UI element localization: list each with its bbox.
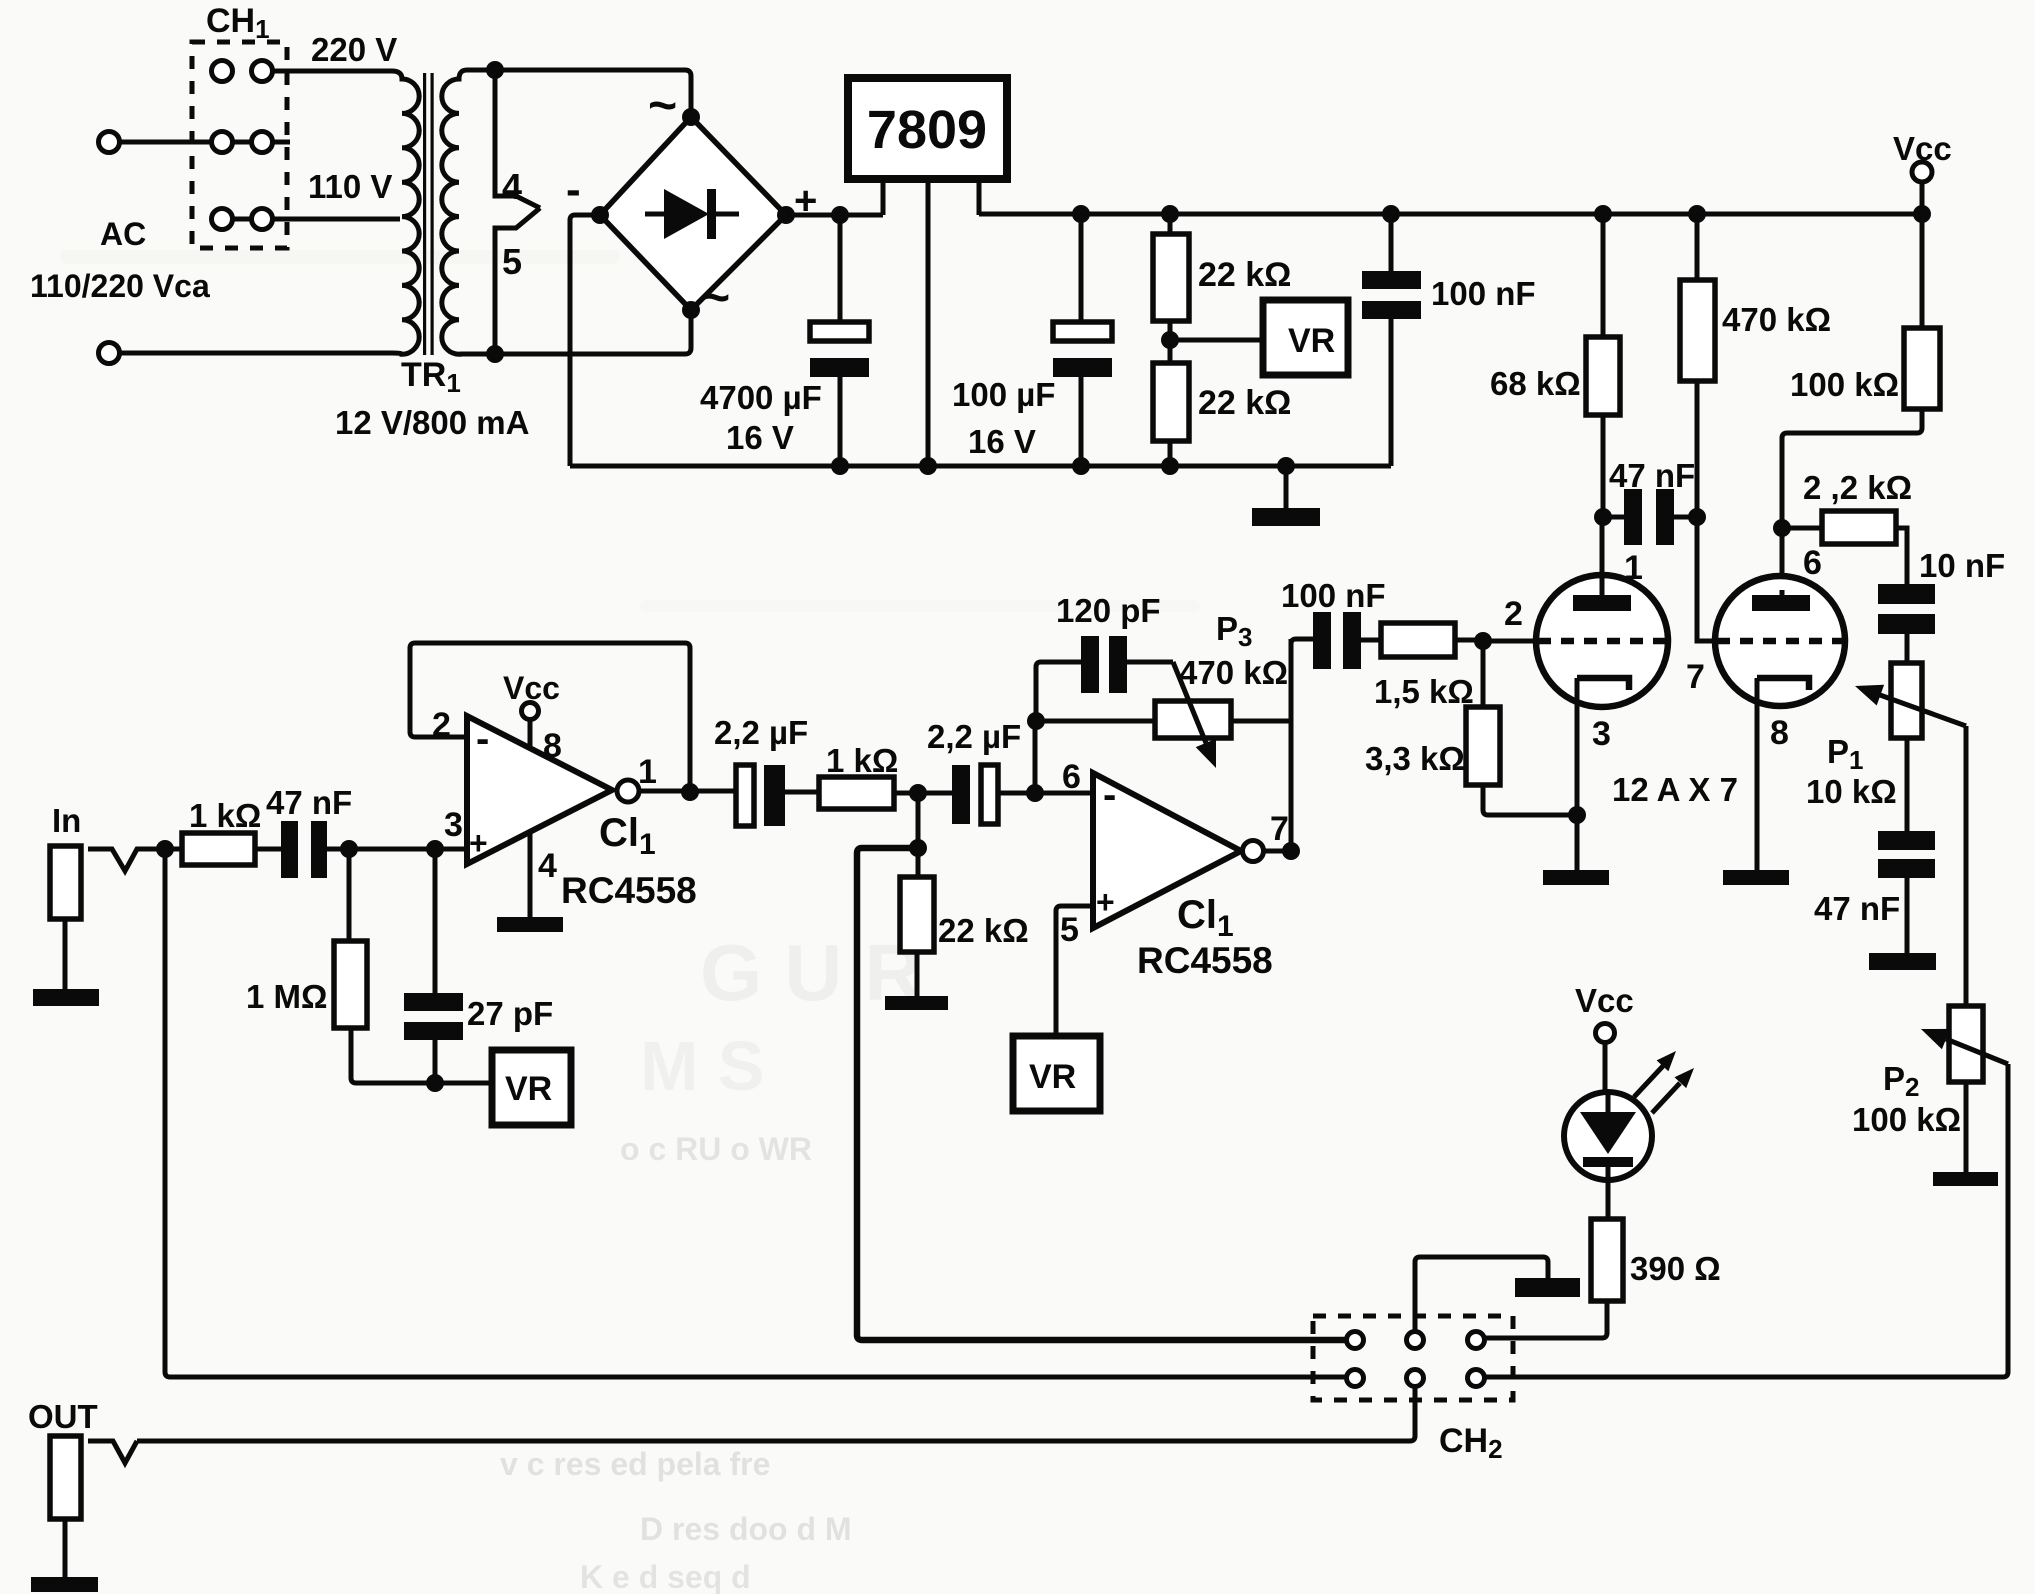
svg-text:-: -: [566, 165, 581, 214]
capacitor 2.2uF second plate1: [952, 765, 970, 824]
wire 7809 input pin: [881, 179, 886, 215]
AC line terminal upper: [99, 132, 120, 153]
switch CH2 contact top-middle: [1407, 1332, 1424, 1349]
svg-text:47 nF: 47 nF: [1609, 457, 1695, 494]
op-amp CI1b triangle: [1093, 773, 1241, 928]
bridge diode cathode lead: [716, 212, 739, 217]
wire input jack tip with break: [88, 849, 182, 871]
switch CH1 contact 220V left: [212, 61, 233, 82]
svg-text:-: -: [1103, 773, 1116, 817]
svg-text:16 V: 16 V: [726, 419, 794, 456]
switch CH2 contact bottom-middle: [1407, 1370, 1424, 1387]
resistor 68k: [1601, 214, 1606, 337]
wire 7809 ground pin: [926, 179, 931, 466]
svg-text:10 kΩ: 10 kΩ: [1806, 773, 1897, 810]
svg-text:VR: VR: [1288, 322, 1335, 360]
svg-text:VR: VR: [505, 1070, 552, 1108]
capacitor 10nF plate1: [1878, 584, 1935, 604]
wire Vcc to LED: [1603, 1043, 1608, 1093]
svg-text:2: 2: [1504, 595, 1523, 633]
terminal Vcc opamp1: [522, 703, 539, 720]
ground input jack: [33, 989, 99, 1006]
svg-text:1 kΩ: 1 kΩ: [189, 797, 261, 834]
switch CH1 contact 220V right: [252, 61, 273, 82]
svg-text:4700 µF: 4700 µF: [700, 379, 822, 416]
svg-text:100 nF: 100 nF: [1431, 275, 1536, 312]
svg-text:K e d seq d: K e d seq d: [580, 1559, 751, 1594]
svg-text:12 V/800 mA: 12 V/800 mA: [335, 404, 529, 441]
ground 47nF right: [1869, 953, 1936, 970]
node opamp2 output: [1282, 842, 1300, 860]
svg-text:10 nF: 10 nF: [1919, 547, 2005, 584]
svg-text:~: ~: [701, 269, 730, 325]
resistor 22k lower: [1153, 363, 1189, 441]
wire P3 left lead: [1036, 719, 1155, 724]
svg-text:12 A X 7: 12 A X 7: [1612, 771, 1738, 808]
potentiometer P1 body: [1891, 663, 1922, 738]
svg-text:3,3 kΩ: 3,3 kΩ: [1365, 740, 1465, 777]
svg-text:110 V: 110 V: [308, 168, 392, 205]
wire feedback vertical opamp2: [1289, 639, 1294, 851]
node 22k bias junction: [909, 784, 927, 802]
svg-text:16 V: 16 V: [968, 423, 1036, 460]
node 68k/47nF junction (tube1 plate): [1594, 508, 1612, 526]
wire V1a cathode lead pin3: [1575, 678, 1580, 870]
wire In node down to CH2 bottom-left: [165, 849, 1347, 1377]
wire Vcc to rail: [1920, 182, 1925, 214]
svg-text:390 Ω: 390 Ω: [1630, 1250, 1721, 1287]
wire 27pF top lead: [433, 849, 438, 993]
svg-text:2 ,2 kΩ: 2 ,2 kΩ: [1803, 469, 1912, 506]
switch CH1 dashed box: [192, 42, 287, 248]
node cathode/3.3k: [1568, 806, 1586, 824]
switch CH2 contact bottom-right: [1468, 1370, 1485, 1387]
wire P2 bottom to ground: [1964, 1082, 1969, 1172]
resistor 390R: [1591, 1219, 1623, 1301]
svg-text:22 kΩ: 22 kΩ: [938, 912, 1029, 949]
wire 100nF coupling left lead: [1291, 639, 1313, 644]
capacitor 100uF plate bottom: [1053, 358, 1112, 377]
wire CH2 bottom-middle to OUT line: [137, 1387, 1415, 1441]
wire positive rail left segment (bridge+ to 7809 input): [786, 213, 883, 218]
bridge diode triangle: [664, 189, 709, 239]
bridge diode anode lead: [645, 212, 665, 217]
svg-text:470 kΩ: 470 kΩ: [1179, 654, 1288, 691]
svg-text:22 kΩ: 22 kΩ: [1198, 384, 1291, 422]
triode V1a cathode: [1577, 678, 1629, 690]
svg-text:1: 1: [1624, 549, 1643, 587]
wire 390R to CH2 top-right: [1485, 1301, 1607, 1338]
svg-text:M S: M S: [640, 1027, 764, 1105]
capacitor 120pF plate1: [1081, 636, 1099, 693]
svg-text:1 MΩ: 1 MΩ: [246, 978, 327, 1015]
node opamp2 minus input: [1026, 784, 1044, 802]
svg-text:RC4558: RC4558: [561, 870, 697, 911]
wire 2.2uF second to opamp2 minus: [998, 791, 1093, 796]
wire opamp2 output: [1264, 849, 1291, 854]
node 22k divider top: [1161, 205, 1179, 223]
svg-text:7809: 7809: [867, 100, 987, 160]
ground V1a cathode: [1543, 870, 1609, 885]
node ground symbol stub: [1277, 457, 1295, 475]
node 100uF top: [1072, 205, 1090, 223]
svg-text:v c res ed pela fre: v c res ed pela fre: [500, 1446, 770, 1482]
triode V1b envelope: [1715, 576, 1845, 706]
op-amp CI1a output circle pin1: [617, 780, 639, 802]
wire 1k to 2.2uF second: [894, 791, 952, 796]
capacitor 47nF coupling plate1: [1624, 489, 1642, 545]
node secondary top: [486, 61, 504, 79]
terminal Vcc LED: [1596, 1024, 1615, 1043]
capacitor 4700uF plate bottom: [810, 358, 869, 377]
node VR bottom junction: [426, 1074, 444, 1092]
wire 4700uF top lead: [838, 215, 843, 322]
svg-text:OUT: OUT: [28, 1398, 98, 1435]
svg-text:100 µF: 100 µF: [952, 376, 1055, 413]
wire CH2 top-middle to pole bar: [1415, 1257, 1548, 1331]
switch CH2 contact top-right: [1468, 1332, 1485, 1349]
svg-text:Vcc: Vcc: [1575, 982, 1634, 1019]
AC line terminal lower: [99, 343, 120, 364]
resistor 22k bias: [900, 877, 934, 952]
switch CH1 pole contact right: [252, 132, 273, 153]
bridge rectifier diamond: [600, 117, 786, 310]
wire pin4 stub to ground: [528, 831, 533, 917]
node bridge right: [777, 206, 795, 224]
capacitor 4700uF plate top: [810, 322, 869, 341]
wire 47nF to opamp +: [327, 847, 467, 852]
wire 100k bottom to tube2 plate node: [1782, 409, 1922, 595]
wire secondary bottom to bridge: [495, 315, 691, 354]
svg-text:110/220 Vca: 110/220 Vca: [30, 268, 210, 304]
node rail right end: [1913, 205, 1931, 223]
ground P2: [1933, 1172, 1998, 1186]
svg-text:8: 8: [1770, 714, 1789, 752]
switch CH2 pole bar: [1515, 1278, 1580, 1297]
svg-text:100 kΩ: 100 kΩ: [1852, 1101, 1961, 1138]
node 470k top: [1688, 205, 1706, 223]
resistor 100k: [1920, 214, 1925, 328]
wire output jack tip with break: [88, 1441, 137, 1463]
wire LED anode inside: [1606, 1093, 1611, 1112]
wire V1a plate lead pin1: [1600, 517, 1605, 595]
svg-text:+: +: [1096, 884, 1115, 920]
potentiometer P2 wiper arrow: [1946, 1039, 2008, 1064]
wire 1.5k to tube grid: [1455, 638, 1483, 643]
svg-text:~: ~: [648, 77, 677, 133]
svg-text:6: 6: [1062, 758, 1081, 796]
op-amp CI1b output circle pin7: [1243, 841, 1264, 862]
wire opamp1 output: [639, 789, 736, 794]
svg-text:47 nF: 47 nF: [1814, 890, 1900, 927]
wire 100nF bottom lead: [1389, 319, 1394, 466]
node 100nF rail: [1382, 205, 1400, 223]
svg-text:22 kΩ: 22 kΩ: [1198, 256, 1291, 294]
output jack body: [50, 1436, 81, 1519]
resistor 3.3k: [1481, 641, 1486, 707]
node bridge top: [682, 108, 700, 126]
wire 22k to ground: [915, 952, 920, 996]
node 68k top: [1594, 205, 1612, 223]
svg-text:3: 3: [444, 806, 463, 844]
resistor 1M: [347, 849, 352, 941]
switch CH1 pole contact left: [212, 132, 233, 153]
wire branch to CH2 top-left: [857, 848, 1347, 1340]
svg-text:In: In: [52, 802, 81, 839]
node bridge left: [591, 206, 609, 224]
switch CH2 dashed box: [1313, 1316, 1513, 1400]
regulator U1 7809 box: [848, 78, 1007, 179]
wire V1b cathode lead pin8: [1755, 678, 1760, 870]
capacitor 2.2uF first plate2: [764, 765, 785, 826]
wire secondary center-tap upper + chevron: [495, 70, 540, 208]
wire 100uF bottom lead: [1079, 377, 1084, 466]
output jack sleeve ground stub: [63, 1519, 68, 1577]
resistor 470k: [1695, 214, 1700, 280]
svg-text:D res doo d M: D res doo d M: [640, 1511, 852, 1547]
node 1M: [340, 840, 358, 858]
svg-text:4: 4: [538, 847, 557, 885]
node 27pF: [426, 840, 444, 858]
node ground 22k divider: [1161, 457, 1179, 475]
triode V1b cathode: [1757, 678, 1809, 690]
switch CH2 contact top-left: [1347, 1332, 1364, 1349]
wire ground rail: [570, 464, 1391, 469]
node at VR input: [1269, 331, 1287, 349]
triode V1a envelope: [1536, 575, 1668, 707]
box VR reference stage2: [1013, 1036, 1100, 1111]
capacitor 120pF plate2: [1109, 636, 1127, 693]
wire V1b grid lead pin7: [1697, 517, 1716, 641]
node P3 left: [1027, 712, 1045, 730]
capacitor 2.2uF second plate2: [981, 765, 998, 824]
wire 4700uF bottom lead: [838, 377, 843, 466]
resistor 1k interstage: [819, 777, 894, 809]
svg-text:68 kΩ: 68 kΩ: [1490, 365, 1581, 402]
triode V1a plate: [1573, 595, 1631, 611]
wire V1b plate lead pin6 (already runs from node above): [1780, 590, 1785, 595]
svg-text:+: +: [469, 825, 488, 861]
triode V1b plate: [1752, 595, 1810, 611]
wire between 110V contacts: [233, 217, 251, 222]
triode V1a grid (dashed): [1538, 638, 1666, 645]
wire feedback node vertical: [1033, 721, 1038, 793]
svg-text:VR: VR: [1029, 1058, 1076, 1096]
wire P1 wiper to P2 top: [1964, 726, 1969, 1006]
node output/feedback junction: [681, 783, 699, 801]
wire LED cathode to 390R: [1606, 1167, 1611, 1219]
wire between pole contacts: [233, 140, 251, 145]
LED D1 triangle: [1580, 1112, 1636, 1154]
node grid/3.3k: [1474, 632, 1492, 650]
resistor 1.5k: [1381, 623, 1455, 657]
node 470k/47nF junction: [1688, 508, 1706, 526]
transformer TR1 core: [423, 73, 426, 355]
svg-text:47 nF: 47 nF: [266, 784, 352, 821]
wire 47nF left lead: [1603, 515, 1624, 520]
capacitor 100nF coupling plate2: [1343, 612, 1361, 669]
capacitor 100nF rail plate2: [1362, 301, 1421, 319]
wire 27pF bottom lead: [433, 1040, 438, 1083]
svg-text:2,2 µF: 2,2 µF: [927, 718, 1021, 755]
svg-text:5: 5: [1060, 911, 1079, 949]
svg-text:1,5 kΩ: 1,5 kΩ: [1374, 673, 1474, 710]
potentiometer P3 body: [1155, 701, 1231, 738]
svg-text:1: 1: [638, 753, 657, 791]
svg-text:5: 5: [502, 241, 522, 282]
node 4700uF top: [831, 206, 849, 224]
wire 100nF top lead: [1389, 214, 1394, 271]
wire 2.2uF to 1k: [785, 790, 819, 795]
svg-text:100 nF: 100 nF: [1281, 577, 1386, 614]
potentiometer P1 wiper arrow: [1880, 695, 1966, 726]
wire P1 bottom to 47nF: [1905, 738, 1910, 831]
capacitor 47nF right plate1: [1878, 831, 1935, 850]
capacitor 2.2uF first plate1: [736, 765, 754, 826]
wire feedback loop opamp1 (pin2 to output): [410, 643, 690, 792]
box VR reference top: [1263, 300, 1348, 375]
wire 10nF to P1: [1905, 634, 1910, 663]
wire secondary top to bridge: [495, 70, 691, 112]
LED D1 cathode bar: [1583, 1157, 1633, 1167]
wire 47nF right lead: [1674, 515, 1697, 520]
ground output jack: [31, 1577, 98, 1592]
svg-text:-: -: [476, 717, 489, 761]
wire P2 wiper down to CH2: [1485, 1064, 2008, 1377]
ground V1b cathode: [1723, 870, 1789, 885]
capacitor 47nF input plate2: [311, 821, 327, 878]
switch CH2 contact bottom-left: [1347, 1370, 1364, 1387]
wire P3 right lead: [1231, 719, 1291, 724]
wire 1k to 47nF: [255, 847, 281, 852]
node CH2 send branch: [909, 839, 927, 857]
switch CH1 contact 110V right: [252, 209, 273, 230]
ground symbol main rail: [1284, 466, 1289, 510]
wire pin8 stub: [528, 720, 533, 748]
switch CH1 contact 110V left: [212, 209, 233, 230]
wire pin5 to VR: [1056, 906, 1093, 1036]
node ground 4700uF: [831, 457, 849, 475]
node 22k divider mid: [1161, 331, 1179, 349]
node ground 7809: [919, 457, 937, 475]
capacitor 27pF plate2: [404, 1022, 463, 1040]
wire secondary center-tap lower + chevron: [495, 208, 540, 354]
resistor 22k upper: [1168, 214, 1173, 234]
capacitor 47nF input plate1: [281, 821, 298, 878]
svg-text:27 pF: 27 pF: [467, 995, 553, 1032]
svg-text:7: 7: [1270, 810, 1289, 848]
node ground 100uF: [1072, 457, 1090, 475]
svg-text:AC: AC: [100, 216, 146, 252]
node secondary bottom: [486, 345, 504, 363]
wire 110V tap: [273, 217, 400, 222]
triode V1b grid (dashed): [1717, 638, 1843, 645]
wire divider mid to VR: [1170, 338, 1278, 343]
box VR reference stage1: [492, 1050, 571, 1125]
node bridge bottom: [682, 301, 700, 319]
transformer TR1 secondary winding: [442, 70, 488, 354]
ground opamp1: [497, 917, 563, 932]
wire 120pF right lead: [1127, 660, 1173, 665]
potentiometer P3 wiper arrow: [1173, 662, 1206, 743]
capacitor 100uF plate top: [1053, 322, 1112, 341]
resistor 2.2k: [1782, 526, 1822, 531]
terminal Vcc top right: [1912, 162, 1932, 182]
wire AC upper to CH1 pole: [120, 140, 211, 145]
transformer TR1 primary winding (220V wire + winding): [120, 71, 419, 354]
node tube2 plate / 2.2k: [1773, 519, 1791, 537]
wire 120pF left lead: [1036, 662, 1081, 721]
svg-text:6: 6: [1803, 544, 1822, 582]
svg-text:RC4558: RC4558: [1137, 940, 1273, 981]
wire 100uF top lead: [1079, 214, 1084, 322]
node input: [156, 840, 174, 858]
svg-text:o c RU o WR: o c RU o WR: [620, 1131, 812, 1167]
wire down to 22k and CH2 branch: [916, 793, 921, 952]
svg-text:4: 4: [502, 166, 522, 207]
svg-text:Vcc: Vcc: [503, 670, 560, 706]
svg-text:120 pF: 120 pF: [1056, 592, 1161, 629]
op-amp CI1a triangle: [467, 716, 612, 864]
LED light arrow 2: [1652, 1083, 1680, 1113]
svg-text:2,2 µF: 2,2 µF: [714, 714, 808, 751]
svg-text:1 kΩ: 1 kΩ: [826, 742, 898, 779]
svg-text:100 kΩ: 100 kΩ: [1790, 366, 1899, 403]
potentiometer P2 body: [1949, 1006, 1983, 1082]
wire V1a grid lead pin2: [1483, 639, 1537, 644]
input jack sleeve ground stub: [63, 919, 68, 989]
LED D1 envelope: [1564, 1092, 1652, 1180]
svg-text:220 V: 220 V: [311, 31, 397, 68]
LED light arrow 1: [1634, 1066, 1663, 1097]
wire 47nF right to ground: [1905, 878, 1910, 953]
wire 100nF to 1.5k: [1361, 638, 1381, 643]
capacitor 100nF rail plate1: [1362, 271, 1421, 289]
resistor 1k input: [182, 833, 255, 865]
capacitor 47nF right plate2: [1878, 859, 1935, 878]
wire pole stub right: [273, 140, 290, 145]
ground 22k bias: [885, 996, 948, 1010]
svg-text:8: 8: [543, 727, 562, 765]
svg-text:3: 3: [1592, 715, 1611, 753]
input jack body: [50, 846, 81, 919]
capacitor 27pF plate1: [404, 993, 463, 1011]
wire 7809 output pin: [977, 179, 982, 215]
capacitor 100nF coupling plate1: [1313, 612, 1331, 669]
bridge diode cathode bar: [707, 189, 716, 239]
capacitor 47nF coupling plate2: [1656, 489, 1674, 545]
wire positive rail right segment (7809 out to Vcc): [979, 212, 1922, 217]
capacitor 10nF plate2: [1878, 614, 1935, 634]
wire bridge minus to ground rail: [570, 215, 600, 466]
svg-text:470 kΩ: 470 kΩ: [1722, 301, 1831, 338]
svg-text:7: 7: [1686, 658, 1705, 696]
